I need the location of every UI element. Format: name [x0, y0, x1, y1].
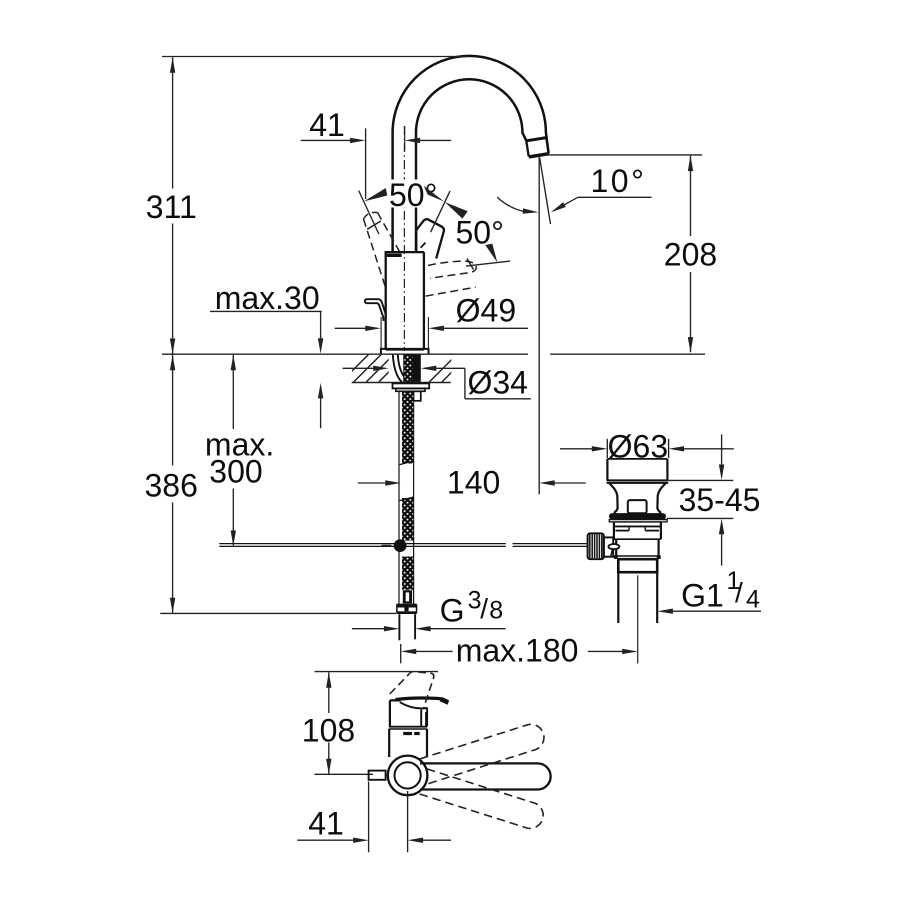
side view lower body left wall [388, 729, 390, 757]
dim dia34 arrow left [421, 366, 437, 371]
svg-text:/: / [480, 593, 488, 624]
swivel arc arrow [523, 208, 539, 213]
counter underside line [352, 382, 451, 384]
waste lower-right corner block [657, 555, 661, 559]
dia34 label bracket vertical [464, 368, 466, 399]
extension line spout axis [315, 773, 374, 775]
tailpiece collar [618, 559, 657, 572]
dim 208 arrow up [688, 156, 693, 172]
max.30 arrow tail below [320, 397, 322, 428]
svg-text:max.180: max.180 [456, 632, 579, 668]
counter cross-hatch left of hole [340, 354, 457, 383]
dim dia49 arrow left [428, 326, 444, 331]
supply hose left wall [398, 391, 400, 613]
dim 140 arrow right [385, 480, 401, 485]
side view body joint line b [389, 728, 427, 730]
dim dia49 line left [335, 327, 367, 329]
waste lower-left corner block [614, 555, 618, 559]
dim max180 line right [588, 650, 623, 652]
dim max180 arrow right [622, 649, 638, 654]
countertop surface line (right) [550, 353, 705, 355]
knurl rib [589, 535, 591, 559]
waste body right wall upper [660, 522, 662, 539]
lever blade top (thick) [397, 698, 447, 701]
dim 35-45 line upper [721, 434, 723, 465]
lever handle (solid, upright) [416, 219, 444, 258]
supply hose right wall [413, 391, 415, 613]
dim 311 line lower [172, 224, 174, 354]
dim max300 line lower [232, 489, 234, 546]
max.30 arrow down to counter top [318, 338, 323, 354]
tailpipe left wall [617, 573, 619, 623]
dashed lever left top arc [364, 212, 378, 219]
dim 208 arrow down [688, 337, 693, 353]
waste lower bottom line [616, 555, 658, 557]
side view lower body right wall [426, 729, 428, 757]
dim 108 arrow up [326, 672, 331, 688]
dim 108 arrow down [326, 759, 331, 775]
rod joint block [604, 537, 613, 556]
pop-up rod knurled nut [588, 533, 604, 559]
lever-down notch tick [467, 259, 474, 270]
dim 41 arrow left [405, 138, 421, 143]
pop-up rod bottom line right part [513, 545, 589, 547]
pop-up rod knob inner line [367, 303, 384, 321]
braided hose sleeve segment [402, 498, 413, 541]
waste taper right profile [657, 483, 666, 513]
dim dia49 extension right [427, 317, 429, 350]
dim G38 arrow right [384, 626, 400, 631]
faucet body right wall [423, 252, 425, 350]
extension line basin deck [667, 479, 734, 481]
svg-text:300: 300 [209, 454, 262, 490]
dim 208 line upper [690, 156, 692, 236]
locknut chamfer [396, 388, 425, 391]
dim G38 arrow left [415, 626, 431, 631]
braided hose section in counter hole [404, 355, 413, 383]
dim dia63 line right [684, 448, 734, 450]
faucet spout inner wall (gooseneck) [416, 79, 526, 252]
rod centerline tick [382, 544, 392, 546]
flexible hose curve 1 in hole [393, 354, 402, 382]
dim 108 line lower [328, 743, 330, 774]
dashed spout lowered position [419, 769, 543, 829]
dim 35-45 arrow down [719, 465, 724, 481]
max.30 arrow up to counter bottom [318, 383, 323, 399]
dim max300 arrow down [231, 531, 236, 547]
G1 1/4 leader line [673, 610, 761, 612]
base flange plate [381, 349, 429, 354]
waste body left wall upper [613, 522, 615, 539]
locknut upper [393, 383, 430, 388]
lever neck left [420, 710, 422, 727]
faucet body top edge [385, 251, 424, 253]
svg-text:8: 8 [489, 596, 503, 624]
dim G38 line left [352, 628, 384, 630]
vertical line from spout outlet [538, 157, 540, 494]
dashed lever down-right outline [428, 261, 476, 278]
flexible hose curve 2 in hole [398, 354, 405, 377]
dim 41 extension right (centerline stub) [404, 126, 406, 151]
seal flange plate [609, 520, 667, 522]
angle leg lever-down [466, 261, 510, 266]
rod clevis pivot oval [608, 544, 619, 549]
dim G38 line right [430, 628, 505, 630]
flange underside line [614, 521, 661, 523]
pop-up actuating rod bottom line [219, 545, 506, 547]
dim dia34 arrow right [373, 366, 389, 371]
countertop surface line (left) [162, 353, 528, 355]
pop-up rod stub (side view) [369, 771, 386, 780]
extension line lever top (side view) [315, 671, 439, 673]
rod-hose pivot joint (black dot) [394, 539, 407, 552]
pop-up rod knob loop end [365, 299, 367, 303]
side view upper body right wall [425, 712, 427, 727]
svg-text:/: / [735, 577, 743, 608]
dim 41b extension left [368, 782, 370, 853]
overflow slot left end [628, 527, 630, 530]
svg-text:Ø49: Ø49 [456, 293, 516, 329]
waste taper left profile [609, 483, 618, 513]
dim max300 line upper [232, 355, 234, 429]
dim 311 arrow up [170, 57, 175, 72]
dim 311 line upper [172, 57, 174, 188]
extension line spout top [162, 56, 468, 58]
dashed lever left outline b [378, 213, 400, 252]
dim 386 line upper [172, 355, 174, 466]
dim 208 line lower [690, 272, 692, 352]
dim 386 arrow up [170, 355, 175, 371]
dashed lever swing envelope line [426, 287, 476, 296]
dim 386 arrow down [170, 598, 175, 614]
swivel arc [497, 197, 524, 211]
text mask 50deg [387, 180, 439, 208]
pop-up rod knob outer line [367, 299, 386, 321]
svg-text:Ø63: Ø63 [608, 428, 668, 464]
spout nozzle right edge [546, 138, 548, 154]
10deg tilted stream line [540, 158, 551, 224]
overflow slot left [615, 530, 629, 532]
overflow slot right end [644, 527, 646, 530]
angle 50 arrow bowtie lower [445, 202, 468, 219]
mounting stud (solid black) in hole [413, 355, 420, 382]
waste top cylinder left wall [606, 459, 608, 480]
angle 50 arrow left [364, 188, 387, 201]
dim 140 line left [358, 482, 386, 484]
overflow slot right [645, 530, 659, 532]
extension line hose end [160, 612, 396, 614]
faucet body left wall [385, 252, 387, 350]
dim dia49 extension left [380, 317, 382, 350]
side view upper body outline [390, 700, 401, 726]
dim 311 arrow down [170, 339, 175, 355]
waste top cylinder right wall [666, 459, 668, 480]
pop-up actuating rod top line [219, 543, 506, 545]
dim dia63 arrow right [592, 446, 608, 451]
spout swivel collar inner circle [395, 762, 421, 788]
side view vent slot left [403, 732, 412, 735]
svg-text:108: 108 [302, 713, 355, 749]
G3/8 thread tube right wall [414, 614, 416, 639]
10deg underline leader [578, 196, 652, 198]
pop-up pivot housing knob [628, 500, 647, 513]
dim 140 arrow left [539, 480, 555, 485]
svg-text:4: 4 [746, 586, 760, 614]
dim 41b arrow right [353, 838, 369, 843]
faucet spout outer wall (gooseneck) [393, 56, 549, 252]
dim 41 line left [301, 139, 351, 141]
svg-text:10°: 10° [591, 163, 647, 199]
10deg arrow [551, 202, 566, 212]
extension line outlet level [545, 154, 702, 156]
svg-text:41: 41 [308, 806, 344, 842]
faucet body bottom edge [386, 349, 424, 351]
lever-left notch tick [367, 221, 381, 229]
dim dia63 line left [560, 448, 592, 450]
waste body mid line [614, 538, 661, 540]
dim 41 arrow right [350, 138, 366, 143]
lever blade tip wedge [440, 697, 449, 705]
max.30 leader vertical [320, 311, 322, 340]
hose break cut upper [400, 461, 414, 465]
clevis pin line [611, 549, 613, 558]
svg-text:50°: 50° [456, 215, 504, 251]
svg-text:41: 41 [309, 107, 345, 143]
dim 140 line right [555, 482, 586, 484]
spout nozzle outlet face [529, 154, 549, 157]
svg-text:35-45: 35-45 [679, 482, 761, 518]
max.30 underline leader [210, 310, 322, 312]
counter cross-hatch right of hole [428, 354, 507, 383]
svg-text:386: 386 [145, 468, 198, 504]
hose end collar (black) [403, 590, 412, 603]
side view vent slot right [414, 732, 420, 735]
angle leg lever-left [359, 191, 379, 235]
pop-up rod top line right part [513, 543, 589, 545]
waste cylinder bottom rim a [607, 479, 669, 481]
dim 41 extension left [365, 128, 367, 199]
waste cylinder bottom rim b [607, 482, 669, 484]
dim max180 line left [416, 650, 453, 652]
dim 108 line upper [328, 672, 330, 713]
extension line seal underside [667, 517, 734, 519]
lever joint cut mark (black bar) [387, 254, 402, 257]
dim 35-45 arrow up [719, 519, 724, 535]
braided hose sleeve segment [402, 392, 413, 464]
dim dia63 arrow left [669, 446, 685, 451]
dashed spout raised position [420, 724, 544, 784]
hose break cut lower [400, 497, 414, 501]
tailpipe centerline extension [637, 575, 639, 663]
braided hose sleeve segment [402, 557, 413, 590]
angle 50-2 arrow down [485, 244, 497, 263]
dim 41b line right [423, 839, 451, 841]
10deg leader diagonal [554, 197, 578, 211]
dim 41 line right [420, 139, 451, 141]
svg-text:G: G [440, 592, 465, 628]
G3/8 hex nut (black) [396, 604, 417, 614]
dim dia63 extension right [668, 439, 670, 458]
svg-text:G1: G1 [681, 578, 724, 614]
waste body shoulder line [614, 525, 661, 527]
svg-text:140: 140 [447, 464, 500, 500]
faucet centerline (dash-dot) [403, 126, 405, 351]
dim max180 arrow left [401, 649, 417, 654]
svg-text:Ø34: Ø34 [467, 364, 527, 400]
angle 50 arrow bowtie upper [424, 186, 445, 202]
waste lower right wall [657, 539, 659, 556]
waste top cylinder top edge [607, 458, 667, 460]
dim 41b extension right [407, 791, 409, 852]
spout (side view, horizontal) [420, 763, 551, 789]
dia34 label underline [465, 398, 531, 400]
side view body joint line a [389, 726, 427, 728]
svg-text:208: 208 [664, 237, 717, 273]
dim dia63 extension left [606, 439, 608, 458]
G3/8 thread tube left wall [398, 614, 400, 640]
rubber seal ring (black) [612, 513, 663, 519]
dim max300 arrow up [231, 355, 236, 371]
dim max180 extension left [400, 644, 402, 663]
dashed lever left outline a [364, 219, 387, 289]
dim 41b line left [297, 839, 353, 841]
spout nozzle left edge [526, 141, 528, 157]
lever neck right [426, 708, 428, 727]
angle leg lever-up (through lever) [431, 191, 450, 232]
dim 41b arrow left [408, 838, 424, 843]
spout aerator joint band [526, 138, 546, 141]
dim dia49 arrow right [365, 326, 381, 331]
waste lower left wall [615, 539, 617, 556]
svg-text:311: 311 [146, 189, 197, 225]
dim dia49 line right [444, 327, 528, 329]
G1 1/4 leader arrow [657, 609, 673, 614]
dim dia34 line left [343, 367, 375, 369]
pop-up stud lower stub [413, 391, 420, 401]
dim 35-45 line lower [721, 534, 723, 566]
lever thumb notch line [421, 243, 426, 248]
dim dia34 line right [436, 367, 465, 369]
tailpipe right wall [656, 573, 658, 623]
dashed lever raised position [390, 672, 434, 708]
dim 386 line lower [172, 503, 174, 613]
lever blade under-curve [400, 702, 428, 708]
spout swivel collar outer circle [388, 756, 428, 796]
